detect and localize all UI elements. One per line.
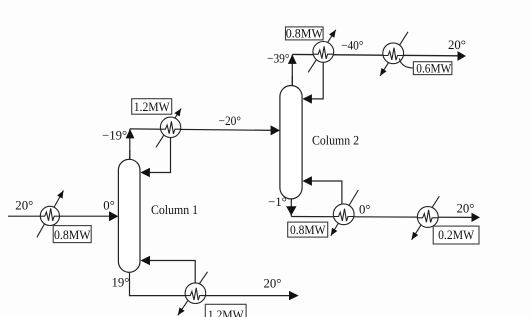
- wire: Column 1 bottoms 19C line through reboiler G: [130, 272, 291, 296]
- arrowhead: up at top of Column 1 riser: [126, 129, 135, 139]
- svg-text:0.6MW: 0.6MW: [416, 61, 452, 75]
- svg-text:0.8MW: 0.8MW: [286, 27, 324, 41]
- svg-text:−19°: −19°: [102, 129, 127, 143]
- heat exchanger E (Column 2 bottoms exchanger 0.8MW): [331, 190, 359, 236]
- wire: reflux from condenser B back to Column 1: [142, 137, 171, 173]
- wire: Column 2 bottoms outlet riser: [290, 198, 292, 216]
- svg-text:Column 2: Column 2: [312, 133, 359, 148]
- svg-text:1.2MW: 1.2MW: [134, 100, 171, 114]
- wire: Column 2 overhead riser: [291, 55, 293, 87]
- wire: Column 1 overhead -20C line to Column 2 feed: [130, 129, 278, 131]
- duty label box B2: [132, 99, 172, 115]
- svg-text:20°: 20°: [15, 199, 33, 213]
- heat exchanger D (overhead product heater 0.6MW): [380, 32, 408, 76]
- svg-text:0.8MW: 0.8MW: [290, 223, 326, 237]
- wire: stub riser at Column 2 cap: [291, 76, 293, 86]
- wire: feed stream 20C into exchanger A and Column 1: [8, 215, 116, 217]
- svg-text:0°: 0°: [103, 199, 115, 213]
- wire: reboiler G return to Column 1: [142, 261, 195, 284]
- heat exchanger G (Column 1 reboiler 1.2MW): [178, 272, 208, 316]
- svg-text:1.2MW: 1.2MW: [208, 308, 245, 317]
- arrowhead: bottoms product 20C out right: [472, 213, 481, 222]
- duty label box B6: [433, 226, 479, 244]
- heat exchanger B (Column 1 condenser 1.2MW): [156, 109, 181, 148]
- arrowhead: reboiler return into Column 1: [141, 256, 151, 265]
- leader curve from exchanger D to 0.6MW box: [399, 59, 413, 69]
- heat exchanger F (bottoms product heater 0.2MW): [412, 196, 440, 240]
- arrowhead: feed into Column 1: [109, 211, 118, 221]
- arrowhead: boilup return into Column 2: [302, 176, 312, 185]
- duty label box B3: [286, 27, 324, 41]
- heat exchanger A (feed cooler 0.8MW): [37, 191, 64, 238]
- svg-text:20°: 20°: [448, 38, 466, 52]
- heat exchanger C (Column 2 condenser 0.8MW): [308, 30, 336, 73]
- svg-text:0.8MW: 0.8MW: [54, 228, 91, 242]
- arrowhead: bottoms product 20C out: [289, 291, 299, 300]
- column C1 (distillation Column 1): [118, 159, 140, 272]
- duty label box B1: [53, 226, 91, 243]
- wire: Column 1 overhead riser: [129, 129, 131, 160]
- svg-text:20°: 20°: [264, 276, 282, 290]
- arrowhead: down at Column 2 bottoms outlet: [286, 206, 296, 215]
- svg-text:−39°: −39°: [267, 51, 290, 65]
- svg-text:−40°: −40°: [341, 39, 364, 53]
- arrowhead: reflux into Column 1: [140, 168, 150, 177]
- svg-text:0.2MW: 0.2MW: [438, 228, 475, 242]
- wire: Column 2 bottoms -1C line through exchangers E and F: [291, 216, 471, 219]
- wire: boilup return from exchanger E to Column 2: [304, 181, 342, 204]
- wire: reflux from condenser C back to Column 2: [304, 62, 323, 99]
- duty label box B5: [288, 222, 328, 237]
- svg-text:−20°: −20°: [219, 114, 242, 128]
- column C2 (distillation Column 2): [280, 86, 302, 199]
- arrowhead: overhead feed into Column 2: [271, 125, 280, 135]
- svg-text:0°: 0°: [359, 203, 371, 217]
- svg-text:20°: 20°: [457, 202, 475, 216]
- svg-text:−1°: −1°: [268, 195, 287, 209]
- svg-text:19°: 19°: [112, 275, 130, 289]
- duty label box B4: [413, 61, 452, 75]
- duty label box B7: [205, 304, 246, 317]
- svg-text:Column 1: Column 1: [151, 202, 198, 217]
- arrowhead: overhead product 20C out: [458, 51, 467, 61]
- wire: stub riser at Column 1 cap: [129, 150, 131, 160]
- arrowhead: reflux into Column 2: [302, 94, 312, 103]
- wire: Column 2 overhead -40C line to 20C product: [292, 54, 458, 55]
- arrowhead: up at top of Column 2 riser: [288, 54, 297, 64]
